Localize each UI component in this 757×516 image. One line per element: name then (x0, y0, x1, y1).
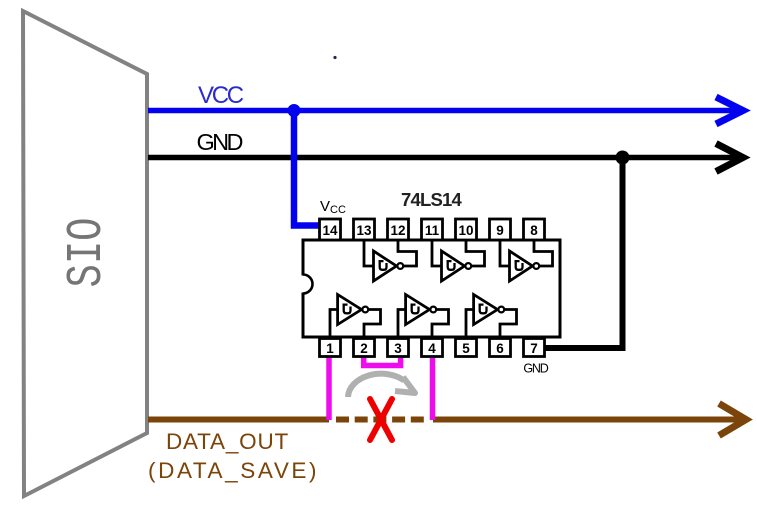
arrowhead DATA_OUT (719, 404, 746, 436)
pin 2 (354, 339, 375, 357)
wire pin 4 to DATA_OUT (magenta tap) (430, 356, 436, 420)
wire pin 1 to DATA_OUT (magenta tap) (326, 356, 332, 420)
arrowhead VCC rail (716, 97, 743, 124)
pin 5 (456, 339, 477, 357)
svg-text:6: 6 (496, 341, 504, 356)
pin 14 (320, 219, 341, 240)
stray ink dot (333, 56, 336, 59)
svg-text:SIO: SIO (59, 218, 116, 288)
inverter U1d (pins 9->8) (500, 240, 553, 281)
wire pin 2 to pin 3 (magenta U-link) (364, 356, 401, 366)
connector J1 SIO (trapezoid) (23, 11, 147, 496)
svg-text:1: 1 (326, 341, 334, 356)
pin 8 (524, 219, 545, 240)
inverter U1b (pins 13->12) (364, 240, 417, 281)
svg-text:2: 2 (360, 341, 368, 356)
svg-text:GND: GND (523, 362, 548, 376)
svg-text:VCC: VCC (198, 82, 244, 109)
annotation red X (cut mark) (370, 399, 392, 440)
pin 6 (490, 339, 511, 357)
svg-text:11: 11 (425, 223, 440, 238)
svg-text:12: 12 (390, 223, 405, 238)
wire DATA_OUT solid right segment (433, 417, 743, 423)
svg-text:74LS14: 74LS14 (401, 189, 463, 210)
annotation arrow (gray loop) (348, 374, 415, 397)
pin 13 (354, 219, 375, 240)
pin 9 (490, 219, 511, 240)
junction dot VCC (288, 104, 301, 117)
inverter U1f (pins 3->4) (398, 295, 449, 338)
svg-text:8: 8 (530, 223, 538, 238)
pin 4 (422, 339, 443, 357)
svg-text:GND: GND (197, 129, 243, 155)
IC notch (301, 275, 313, 294)
inverter U1c (pins 11->10) (432, 240, 485, 281)
svg-text:DATA_OUT: DATA_OUT (166, 429, 289, 454)
junction dot GND (616, 151, 630, 165)
svg-text:(DATA_SAVE): (DATA_SAVE) (148, 458, 319, 483)
svg-text:14: 14 (322, 223, 338, 238)
inverter U1e (pins 1->2) (330, 295, 381, 338)
wire pin 7 to GND rail (545, 158, 623, 349)
pin 11 (422, 219, 443, 240)
pin 7 (524, 339, 545, 357)
wire GND rail (148, 155, 740, 161)
wire VCC rail (148, 108, 740, 114)
inverter U1g (pins 5->6) (466, 295, 517, 338)
pin 10 (456, 219, 477, 240)
wire VCC to pin 14 (294, 108, 319, 226)
pin 12 (388, 219, 409, 240)
svg-text:13: 13 (356, 223, 372, 238)
wire DATA_OUT dashed cut segment (336, 417, 427, 423)
svg-text:10: 10 (458, 223, 473, 238)
pin 1 (320, 339, 341, 357)
svg-text:3: 3 (394, 341, 402, 356)
IC U1 74LS14 body (303, 240, 560, 337)
wire DATA_OUT solid left segment (148, 417, 329, 423)
svg-text:VCC: VCC (320, 198, 346, 216)
svg-text:5: 5 (462, 341, 470, 356)
arrowhead GND rail (716, 144, 743, 172)
svg-text:4: 4 (428, 341, 436, 356)
svg-text:7: 7 (530, 341, 538, 356)
pin 3 (388, 339, 409, 357)
svg-text:9: 9 (496, 223, 504, 238)
